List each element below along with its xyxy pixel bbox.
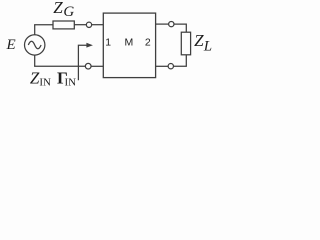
svg-text:Z: Z	[30, 69, 40, 88]
svg-text:2: 2	[145, 37, 151, 49]
svg-text:IN: IN	[39, 77, 51, 89]
terminal node output bottom	[168, 64, 173, 69]
svg-text:IN: IN	[65, 77, 77, 89]
two-port network box M	[103, 13, 155, 78]
arrowhead of Gamma_IN arrow	[86, 43, 93, 48]
wire bottom-left horizontal	[34, 65, 85, 67]
terminal node input top	[86, 22, 91, 27]
wire terminal to corner and down to Z_L	[174, 24, 186, 32]
source sine waveform	[28, 41, 41, 48]
wire top-left vertical from source top	[34, 25, 36, 35]
wire terminal to port 2 bottom	[156, 65, 169, 67]
wire port 2 top to terminal	[156, 23, 169, 25]
resistor Z_G	[53, 21, 74, 29]
terminal node output top	[169, 21, 174, 26]
wire terminal to port 1 bottom	[91, 65, 103, 67]
svg-text:Z: Z	[194, 31, 204, 50]
svg-text:L: L	[203, 39, 212, 55]
wire Z_L bottom to corner to terminal	[174, 55, 186, 66]
source E	[25, 35, 45, 55]
reference plane line for Gamma_IN	[78, 45, 87, 80]
svg-text:E: E	[6, 37, 16, 53]
wire top-left horizontal to Z_G	[34, 24, 53, 26]
wire source bottom vertical	[34, 55, 36, 66]
svg-text:M: M	[125, 37, 134, 49]
svg-text:G: G	[63, 4, 74, 20]
resistor Z_L	[181, 32, 190, 55]
wire Z_G to terminal	[74, 24, 86, 26]
svg-text:1: 1	[105, 37, 111, 49]
svg-text:Z: Z	[53, 0, 63, 17]
terminal node input bottom	[85, 63, 91, 69]
wire terminal to port 1 top	[92, 24, 104, 26]
